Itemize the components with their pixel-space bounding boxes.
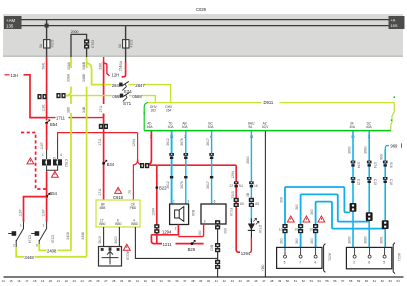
svg-text:360: 360 — [295, 204, 299, 210]
svg-text:61: 61 — [373, 279, 377, 283]
connector on riser — [99, 124, 108, 129]
BSI box right leg — [391, 103, 394, 131]
wire red branch right cluster — [58, 133, 138, 138]
component A051 box — [277, 244, 332, 273]
svg-text:10: 10 — [294, 227, 298, 231]
svg-text:C15: C15 — [357, 179, 361, 185]
svg-text:1294: 1294 — [151, 208, 155, 216]
connector on branch — [154, 224, 159, 233]
wire cyan horn pin1 drop — [171, 131, 173, 204]
svg-text:060: 060 — [198, 230, 202, 236]
svg-text:2408: 2408 — [47, 248, 57, 253]
wire cyan alarm LED drop — [250, 131, 252, 222]
wire cyan A051 ch3 — [316, 202, 386, 248]
station on horn pin3 wire — [184, 153, 189, 159]
svg-text:AG18: AG18 — [126, 251, 130, 260]
connector on alarm red — [234, 198, 239, 207]
svg-text:65: 65 — [240, 202, 244, 206]
wire red F203 to 12H node — [122, 62, 126, 77]
svg-text:C16: C16 — [389, 179, 393, 185]
wire fuse F1 feed — [46, 20, 48, 57]
svg-text:C918: C918 — [113, 195, 124, 200]
svg-text:39: 39 — [199, 279, 203, 283]
wire red branch down to relay — [156, 165, 158, 243]
svg-text:7841: 7841 — [41, 62, 45, 70]
svg-text:27: 27 — [104, 279, 108, 283]
splice B34 — [102, 160, 107, 165]
wire black F019 ground — [217, 224, 219, 277]
svg-text:19: 19 — [41, 279, 45, 283]
svg-text:4: 4 — [314, 260, 316, 264]
svg-text:969: 969 — [380, 154, 384, 160]
wire red to C516 — [46, 197, 48, 222]
svg-text:1167: 1167 — [40, 142, 44, 149]
svg-text:40A: 40A — [349, 125, 356, 129]
warning triangle left — [27, 158, 34, 164]
wire cyan horn pin3 drop — [185, 131, 187, 204]
svg-text:C762: C762 — [64, 159, 68, 167]
svg-text:3448: 3448 — [24, 255, 34, 260]
svg-text:40A: 40A — [168, 125, 175, 129]
svg-text:3661: 3661 — [380, 236, 384, 244]
svg-text:14: 14 — [2, 279, 6, 283]
warning triangle C918 — [115, 187, 122, 193]
svg-text:16: 16 — [17, 279, 21, 283]
svg-text:3660: 3660 — [246, 156, 250, 164]
svg-text:C516: C516 — [51, 235, 55, 243]
svg-text:+A: +A — [391, 18, 396, 23]
svg-text:1: 1 — [173, 200, 175, 204]
svg-text:C514: C514 — [28, 235, 32, 243]
svg-text:4BB: 4BB — [99, 206, 105, 210]
svg-text:1167: 1167 — [41, 209, 45, 216]
svg-text:46: 46 — [254, 279, 258, 283]
svg-text:338A: 338A — [66, 73, 70, 82]
wire red to lamp switches — [46, 123, 48, 150]
svg-text:1711: 1711 — [98, 188, 102, 195]
supply box +AM left — [4, 16, 22, 29]
red dashed variant wire — [21, 133, 47, 190]
switch C516 (door switch) — [31, 222, 54, 248]
wire 3448 chartreuse C514 to riser — [16, 247, 86, 257]
splice B54 lower — [45, 193, 50, 198]
svg-text:3612: 3612 — [166, 138, 170, 146]
station2 on F019 wire — [210, 176, 213, 178]
svg-text:1: 1 — [43, 224, 45, 228]
svg-text:360: 360 — [295, 238, 299, 244]
svg-text:1711: 1711 — [99, 105, 103, 112]
svg-text:45: 45 — [246, 279, 250, 283]
connector ch3 — [313, 224, 318, 233]
svg-text:63: 63 — [389, 279, 393, 283]
svg-text:28: 28 — [112, 279, 116, 283]
svg-text:52: 52 — [302, 279, 306, 283]
svg-text:2: 2 — [353, 260, 355, 264]
wire red 1294 stub riser — [138, 133, 142, 165]
connector ch1 — [282, 224, 287, 233]
svg-text:3617: 3617 — [206, 181, 210, 189]
svg-text:3690: 3690 — [347, 236, 351, 244]
svg-text:B54: B54 — [50, 122, 58, 127]
svg-text:17: 17 — [25, 279, 29, 283]
warning triangle cluster — [52, 171, 59, 177]
wire red F019 to 1294 — [178, 224, 203, 237]
wire chartreuse riser 338A (to C516) — [66, 57, 71, 96]
wire cyan lock ch1 — [352, 131, 354, 247]
svg-text:3676: 3676 — [180, 138, 184, 146]
switch S74 — [104, 81, 171, 102]
BSI box green bottom bus — [144, 130, 391, 132]
svg-text:1: 1 — [20, 224, 22, 228]
svg-text:360: 360 — [310, 209, 314, 215]
component A021 box — [346, 243, 401, 274]
svg-text:BBD: BBD — [131, 222, 138, 226]
svg-text:43: 43 — [231, 279, 235, 283]
svg-text:22: 22 — [65, 279, 69, 283]
svg-text:37: 37 — [183, 279, 187, 283]
svg-text:59: 59 — [357, 279, 361, 283]
svg-text:6: 6 — [214, 200, 216, 204]
wire red main from F205 — [46, 57, 48, 121]
svg-text:S74: S74 — [357, 162, 361, 168]
BSI box left corner — [144, 103, 148, 131]
svg-text:3381: 3381 — [99, 62, 103, 70]
svg-text:12H: 12H — [11, 73, 19, 78]
svg-text:1: 1 — [42, 153, 44, 157]
wire red to C514 — [24, 197, 47, 222]
svg-text:D716: D716 — [258, 225, 262, 233]
svg-text:650: 650 — [223, 228, 227, 234]
switch C762 (interior lamp) — [47, 137, 68, 170]
svg-text:0: 0 — [36, 244, 38, 248]
svg-text:B54: B54 — [50, 191, 58, 196]
svg-text:5A: 5A — [118, 43, 122, 48]
svg-text:56: 56 — [333, 279, 337, 283]
svg-text:23: 23 — [73, 279, 77, 283]
svg-text:26: 26 — [96, 279, 100, 283]
green dot on left leg — [143, 112, 145, 114]
svg-text:S74: S74 — [373, 162, 377, 168]
svg-text:2000: 2000 — [71, 30, 79, 34]
wire cyan F019 drop — [211, 131, 213, 204]
svg-text:15: 15 — [9, 279, 13, 283]
svg-text:6CV: 6CV — [262, 125, 269, 129]
svg-text:18: 18 — [33, 279, 37, 283]
svg-text:44: 44 — [239, 279, 243, 283]
svg-text:34B: 34B — [82, 106, 86, 113]
svg-text:40A: 40A — [182, 125, 189, 129]
connector C763 — [84, 39, 89, 48]
svg-text:40: 40 — [207, 279, 211, 283]
wire supply bus upper — [22, 19, 389, 21]
svg-text:3448: 3448 — [81, 232, 85, 240]
svg-text:29: 29 — [120, 279, 124, 283]
svg-text:57: 57 — [341, 279, 345, 283]
svg-text:A021: A021 — [397, 253, 401, 261]
svg-text:3680: 3680 — [364, 236, 368, 244]
wire red riser 1211 from F203 — [103, 61, 105, 118]
svg-text:F203: F203 — [130, 40, 134, 48]
svg-text:BB0: BB0 — [115, 222, 121, 226]
svg-text:B26: B26 — [191, 210, 195, 216]
svg-text:3: 3 — [204, 220, 206, 224]
wire cyan A051 ch2 — [301, 194, 370, 247]
wire chartreuse branch to S74 — [87, 63, 104, 85]
connector B02 — [215, 243, 220, 252]
wire bracket 2000 — [71, 34, 87, 57]
svg-text:24: 24 — [81, 279, 85, 283]
svg-text:PBD: PBD — [130, 206, 137, 210]
svg-text:F205: F205 — [51, 40, 55, 48]
svg-text:D911: D911 — [264, 100, 274, 105]
svg-text:10: 10 — [309, 227, 313, 231]
svg-text:3620: 3620 — [114, 236, 118, 244]
big connector lock2 — [366, 212, 373, 221]
svg-text:BB0: BB0 — [99, 222, 105, 226]
wire red BSI supply drop — [145, 131, 152, 165]
wire cyan A051 ch1 — [285, 187, 350, 247]
svg-text:916: 916 — [389, 162, 393, 168]
wire fuse F2 feed — [125, 26, 127, 63]
svg-text:3612: 3612 — [166, 181, 170, 189]
wire supply bus lower — [22, 25, 389, 27]
svg-text:7: 7 — [299, 260, 301, 264]
svg-text:C15: C15 — [373, 179, 377, 185]
svg-text:969: 969 — [390, 144, 398, 149]
svg-text:50: 50 — [286, 279, 290, 283]
wire red branch to C918 pin — [133, 159, 137, 200]
svg-text:1294: 1294 — [241, 251, 251, 256]
connector 650 — [215, 220, 220, 229]
warning triangle AG18 — [123, 244, 130, 250]
svg-text:38: 38 — [191, 279, 195, 283]
svg-text:3: 3 — [187, 200, 189, 204]
svg-text:40A: 40A — [366, 125, 373, 129]
svg-text:F019: F019 — [229, 208, 233, 216]
component C918 box — [96, 200, 140, 227]
warning triangle ch2 — [303, 216, 310, 222]
svg-text:4: 4 — [60, 153, 62, 157]
svg-text:B34: B34 — [107, 162, 115, 167]
svg-text:48: 48 — [270, 279, 274, 283]
svg-text:2: 2 — [175, 227, 177, 231]
svg-text:60: 60 — [365, 279, 369, 283]
AG18 symbol — [102, 251, 119, 264]
svg-text:369: 369 — [279, 197, 283, 203]
svg-text:15S: 15S — [391, 23, 398, 28]
svg-text:135: 135 — [6, 24, 14, 29]
svg-text:348B: 348B — [82, 73, 86, 82]
connector ch2 — [298, 224, 303, 233]
svg-text:54: 54 — [318, 279, 322, 283]
connector on 0588 — [56, 93, 65, 98]
svg-text:262: 262 — [151, 109, 157, 113]
svg-text:10: 10 — [279, 227, 283, 231]
connector on red feed — [140, 163, 149, 168]
svg-text:58: 58 — [349, 279, 353, 283]
svg-text:C763: C763 — [91, 40, 95, 48]
big connector lock1 — [350, 203, 357, 212]
wire black BSI ground drop — [264, 131, 266, 277]
svg-text:+AM: +AM — [6, 18, 15, 23]
connector on ground drop — [215, 260, 220, 269]
svg-text:62: 62 — [381, 279, 385, 283]
wire red horn to 1294 — [151, 225, 178, 244]
svg-text:2847: 2847 — [135, 83, 145, 88]
svg-text:51: 51 — [294, 279, 298, 283]
svg-text:21: 21 — [57, 279, 61, 283]
switch S71 — [66, 92, 155, 106]
svg-text:3680: 3680 — [364, 146, 368, 154]
ruler baseline — [4, 276, 404, 277]
station2 on horn pin3 wire — [184, 176, 187, 178]
svg-text:31: 31 — [136, 279, 140, 283]
wire red alarm feed vertical — [236, 165, 240, 252]
component B26 horn box — [170, 200, 195, 231]
wire 12H to junction — [24, 75, 47, 118]
svg-text:15A: 15A — [119, 65, 123, 72]
junction on lower bus — [45, 24, 49, 28]
svg-text:3676: 3676 — [180, 181, 184, 189]
svg-text:5A: 5A — [39, 43, 43, 48]
connector on red main — [37, 94, 46, 99]
svg-text:S71: S71 — [123, 101, 132, 106]
svg-text:41: 41 — [215, 279, 219, 283]
svg-text:3690: 3690 — [347, 146, 351, 154]
warning triangle ch1 — [287, 216, 294, 222]
supply box +AM right — [389, 16, 405, 29]
svg-text:348B: 348B — [82, 61, 86, 70]
svg-text:6: 6 — [368, 260, 370, 264]
svg-text:5: 5 — [383, 260, 385, 264]
diode D716 LED — [248, 218, 262, 238]
splice B22 on branch — [156, 186, 159, 189]
BSI pin DHV 262 — [154, 102, 156, 105]
wire chartreuse riser 348B (to C514) — [86, 57, 88, 257]
svg-text:360: 360 — [279, 238, 283, 244]
wire red horn feed horizontal — [149, 164, 236, 166]
wire 1711 horizontal — [47, 117, 104, 119]
svg-text:1211: 1211 — [163, 242, 173, 247]
svg-text:2: 2 — [13, 244, 15, 248]
node 12H stub left — [5, 74, 10, 76]
svg-text:40A: 40A — [208, 125, 215, 129]
svg-text:47: 47 — [262, 279, 266, 283]
svg-text:1181: 1181 — [41, 104, 45, 111]
wire 1211 bottom — [157, 243, 204, 245]
wire C918 pin4 ground run — [135, 227, 217, 258]
svg-text:1294: 1294 — [231, 171, 235, 179]
svg-text:3617: 3617 — [206, 138, 210, 146]
svg-text:33: 33 — [152, 279, 156, 283]
svg-text:1711: 1711 — [98, 138, 102, 145]
svg-text:75: 75 — [128, 190, 132, 194]
svg-text:22: 22 — [229, 184, 233, 188]
component F019 box — [201, 200, 233, 224]
svg-text:55: 55 — [325, 279, 329, 283]
svg-text:36: 36 — [175, 279, 179, 283]
big connector lock3 — [382, 220, 389, 229]
svg-text:34: 34 — [160, 279, 164, 283]
station on horn pin1 wire — [169, 153, 174, 159]
svg-text:B29: B29 — [188, 247, 196, 252]
fuse F2 — [123, 40, 129, 48]
svg-text:1167: 1167 — [18, 209, 22, 216]
svg-text:38D: 38D — [66, 106, 70, 113]
component AG18 box — [99, 247, 122, 267]
green dots on right leg — [393, 96, 395, 98]
svg-text:64: 64 — [397, 279, 401, 283]
svg-text:35: 35 — [167, 279, 171, 283]
wire red down to splice B54 lower — [46, 172, 48, 197]
svg-text:360: 360 — [310, 238, 314, 244]
BSI box D911 top edge — [148, 102, 394, 104]
switch C514 (door switch) — [8, 222, 31, 248]
station2 on horn pin1 wire — [170, 176, 173, 178]
svg-text:16: 16 — [254, 184, 258, 188]
svg-text:32: 32 — [144, 279, 148, 283]
warning triangle ch3 — [318, 216, 325, 222]
wire red riser to C918 pin1 — [103, 114, 105, 201]
svg-text:30: 30 — [128, 279, 132, 283]
svg-text:1294: 1294 — [132, 139, 136, 147]
svg-text:12H: 12H — [112, 73, 120, 78]
fuse F1 — [44, 40, 50, 48]
wire cyan lock ch2 — [368, 131, 370, 247]
splice B29 — [191, 240, 196, 245]
svg-text:25: 25 — [88, 279, 92, 283]
splice B54 upper — [45, 120, 50, 125]
power supply band — [3, 14, 403, 57]
station on alarm red — [234, 181, 239, 187]
svg-text:YBD: YBD — [261, 264, 265, 272]
svg-text:C029: C029 — [196, 7, 207, 12]
svg-text:1294: 1294 — [162, 229, 172, 234]
svg-text:53: 53 — [310, 279, 314, 283]
svg-text:S4: S4 — [239, 184, 243, 188]
wire cyan lock ch3 — [384, 150, 386, 247]
svg-text:B02: B02 — [210, 245, 214, 251]
svg-text:3B: 3B — [246, 192, 250, 197]
wire C918 pin6 to AG18 — [118, 227, 120, 247]
svg-text:0588: 0588 — [132, 94, 142, 99]
wire 2408 chartreuse C516 to riser — [39, 244, 71, 250]
wire red LED bottom — [250, 238, 252, 253]
svg-text:5: 5 — [284, 260, 286, 264]
node 969 stub — [385, 146, 389, 150]
svg-text:2408: 2408 — [66, 232, 70, 240]
svg-text:49: 49 — [278, 279, 282, 283]
svg-text:46A: 46A — [147, 125, 154, 129]
switch C751 (interior lamp) — [42, 150, 56, 173]
svg-text:20: 20 — [49, 279, 53, 283]
wire C918 pin17 to AG18 — [103, 227, 105, 247]
svg-text:A051: A051 — [328, 253, 332, 261]
svg-text:42: 42 — [223, 279, 227, 283]
svg-text:3619: 3619 — [98, 236, 102, 244]
svg-text:7305: 7305 — [231, 191, 235, 199]
svg-text:264: 264 — [166, 109, 172, 113]
svg-text:1711: 1711 — [56, 116, 66, 121]
svg-text:65: 65 — [255, 202, 259, 206]
